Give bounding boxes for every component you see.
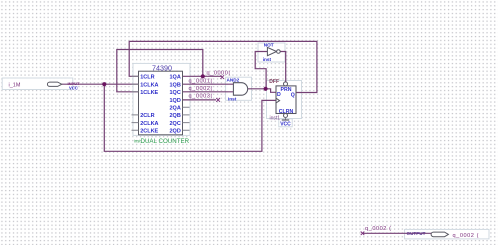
svg-text:q_0003(: q_0003(: [189, 94, 213, 100]
svg-text:D: D: [277, 92, 281, 98]
svg-text:2QA: 2QA: [169, 105, 180, 111]
svg-text:Q: Q: [291, 92, 295, 98]
svg-text:2CLKA: 2CLKA: [140, 121, 158, 127]
svg-text:inst1: inst1: [270, 115, 281, 121]
svg-text:i_1M: i_1M: [9, 82, 21, 88]
svg-text:inst: inst: [228, 96, 237, 101]
svg-text:inst: inst: [263, 57, 272, 62]
svg-text:q_0002(: q_0002(: [189, 86, 213, 92]
svg-text:VCC: VCC: [280, 122, 291, 128]
svg-text:AND2: AND2: [227, 77, 240, 82]
svg-text:q_0002 (: q_0002 (: [365, 226, 391, 232]
svg-text:VCC: VCC: [69, 86, 78, 91]
svg-text:1CLR: 1CLR: [140, 75, 154, 81]
svg-text:1CLKE: 1CLKE: [140, 90, 158, 96]
svg-text:1QA: 1QA: [169, 75, 180, 81]
svg-text:q_0001(: q_0001(: [189, 78, 213, 84]
svg-text:DFF: DFF: [269, 79, 279, 85]
svg-text:NOT: NOT: [264, 42, 274, 47]
svg-text:1QC: 1QC: [169, 90, 180, 96]
svg-text:2CLKE: 2CLKE: [140, 129, 158, 135]
svg-text:1QB: 1QB: [169, 82, 180, 88]
svg-text:2CLR: 2CLR: [140, 113, 154, 119]
svg-text:1QD: 1QD: [169, 98, 180, 104]
svg-text:OUTPUT: OUTPUT: [407, 231, 426, 236]
svg-text:1CLKA: 1CLKA: [140, 82, 158, 88]
svg-text:2QD: 2QD: [169, 129, 180, 135]
svg-text:74390: 74390: [152, 63, 172, 72]
svg-text:q_0000(: q_0000(: [207, 71, 231, 77]
svg-text:2QC: 2QC: [169, 121, 180, 127]
svg-text:2QB: 2QB: [169, 113, 180, 119]
svg-text:q_0002 (: q_0002 (: [453, 233, 479, 239]
svg-text:CLRN: CLRN: [279, 109, 294, 115]
svg-text:DUAL COUNTER: DUAL COUNTER: [141, 138, 190, 145]
